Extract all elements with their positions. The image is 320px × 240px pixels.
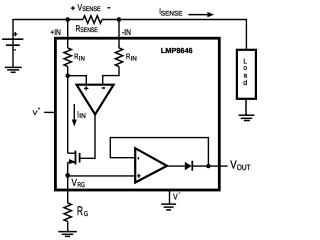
- node VOUT junction: [206, 164, 210, 168]
- resistor RG: [64, 203, 71, 221]
- svg-text:o: o: [243, 65, 247, 72]
- battery V+ source: [2, 39, 23, 67]
- ground (RG): [58, 232, 77, 237]
- svg-text:-: -: [179, 191, 181, 197]
- svg-text:V: V: [72, 178, 77, 189]
- resistor RSENSE: [83, 16, 102, 24]
- svg-text:IN: IN: [131, 55, 138, 62]
- power pin V+: [44, 111, 54, 113]
- U2 minus marker: [138, 157, 139, 160]
- op-amp U2 buffer: [135, 148, 167, 182]
- arrow IIN: [73, 104, 75, 122]
- wire top net from battery to load: [13, 20, 83, 46]
- svg-text:IN: IN: [79, 55, 85, 62]
- svg-text:LMP8646: LMP8646: [161, 46, 193, 55]
- svg-text:+: +: [38, 106, 40, 112]
- wire U2 output: [167, 165, 185, 167]
- IC LMP8646 box: [55, 38, 219, 190]
- op-amp U1 gm amplifier: [77, 85, 114, 115]
- svg-text:SENSE: SENSE: [161, 10, 183, 17]
- svg-text:-IN: -IN: [122, 27, 131, 37]
- load box: [237, 50, 256, 99]
- svg-text:SENSE: SENSE: [80, 27, 98, 34]
- wire feedback loop: [110, 138, 208, 167]
- U1 plus marker: [84, 86, 88, 90]
- svg-text:a: a: [244, 73, 248, 80]
- U1 minus marker: [102, 87, 105, 89]
- svg-text:R: R: [77, 204, 83, 218]
- resistor RIN left: [64, 48, 71, 66]
- resistor RIN right: [115, 48, 122, 66]
- power pin V- wire: [169, 190, 171, 204]
- svg-text:SENSE: SENSE: [82, 6, 101, 13]
- wire VRG to buffer plus input: [68, 175, 136, 177]
- ground (battery): [5, 67, 22, 72]
- node +IN junction: [65, 17, 70, 22]
- svg-text:RG: RG: [78, 182, 85, 189]
- wire load to ground: [245, 99, 247, 115]
- diode D1: [185, 162, 192, 170]
- wire -IN resistor to gm-amp minus input: [103, 67, 119, 85]
- svg-text:V: V: [173, 192, 178, 202]
- wire U1 output to transistor gate: [80, 114, 95, 158]
- node -IN junction: [117, 17, 122, 22]
- svg-text:OUT: OUT: [237, 163, 251, 172]
- U2 plus marker: [137, 174, 140, 178]
- svg-text:+IN: +IN: [50, 27, 61, 37]
- svg-text:d: d: [243, 79, 247, 87]
- battery + label: [13, 32, 17, 36]
- ground (load): [239, 115, 255, 120]
- wire VRG down to RG: [67, 175, 69, 203]
- node A plus-input junction: [65, 73, 70, 78]
- battery - label: [14, 49, 16, 51]
- svg-text:G: G: [84, 211, 88, 218]
- ground (V-): [161, 204, 176, 210]
- Q1 source arrow: [69, 159, 75, 164]
- transistor Q1: [68, 151, 80, 176]
- wire diode to VOUT: [192, 165, 227, 167]
- wire node A to gm-amp plus input: [68, 76, 87, 85]
- svg-text:IN: IN: [79, 113, 86, 120]
- wire +IN: [67, 20, 69, 49]
- label VSENSE: [71, 6, 75, 10]
- wire node A down to transistor drain: [67, 76, 69, 154]
- arrow ISENSE: [188, 14, 208, 16]
- wire -IN: [118, 20, 120, 49]
- node VRG: [65, 173, 70, 178]
